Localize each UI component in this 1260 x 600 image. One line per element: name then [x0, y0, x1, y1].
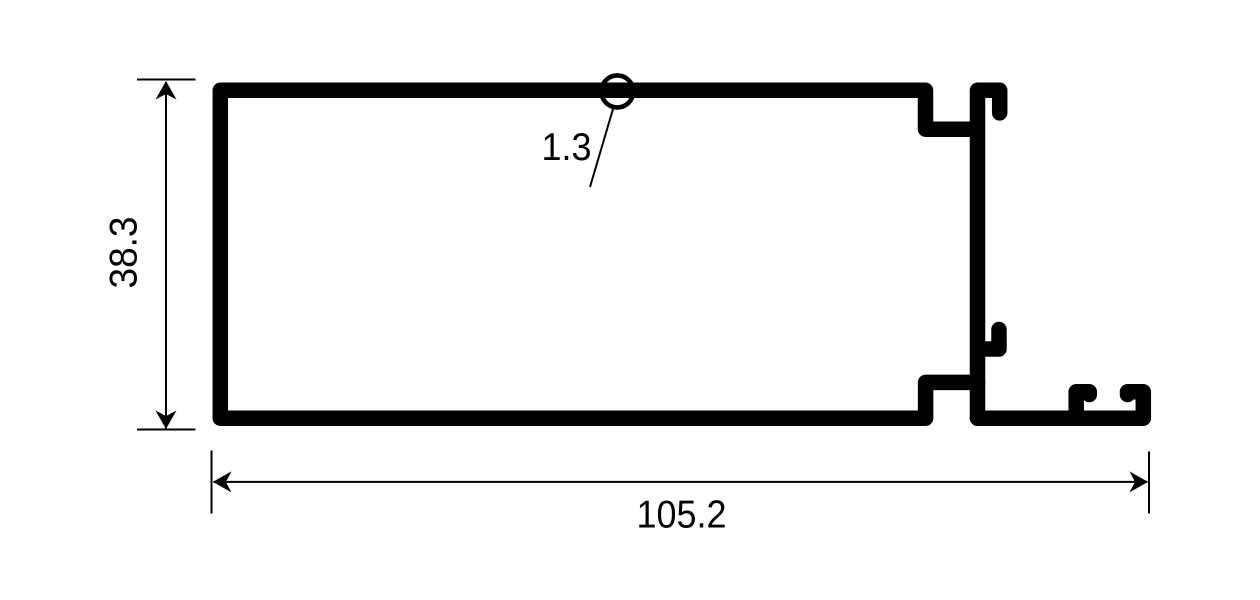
vertical dimension line 38.3 — [165, 82, 167, 429]
arrowhead up — [156, 81, 177, 100]
svg-text:1.3: 1.3 — [542, 126, 592, 169]
wall thickness callout circle — [601, 75, 633, 107]
profile bottom mid stub hook — [1076, 392, 1089, 418]
horizontal dimension line 105.2 — [214, 481, 1148, 483]
svg-text:38.3: 38.3 — [103, 217, 146, 289]
leader line to 1.3 label — [590, 109, 613, 187]
extension line bottom-left (105.2) — [211, 451, 213, 514]
profile outline (main box with top and bottom jogs) — [220, 90, 977, 418]
profile bottom flange with end hook — [978, 392, 1144, 418]
arrowhead left — [213, 471, 232, 492]
extension tick bottom (38.3) — [137, 429, 196, 431]
profile middle hook on right wall — [978, 330, 999, 350]
svg-text:105.2: 105.2 — [637, 494, 727, 537]
arrowhead right — [1130, 471, 1149, 492]
profile right vertical wall with top hook — [978, 90, 1000, 418]
extension tick top (38.3) — [137, 79, 196, 81]
arrowhead down — [156, 411, 177, 430]
extension line bottom-right (105.2) — [1148, 452, 1150, 514]
